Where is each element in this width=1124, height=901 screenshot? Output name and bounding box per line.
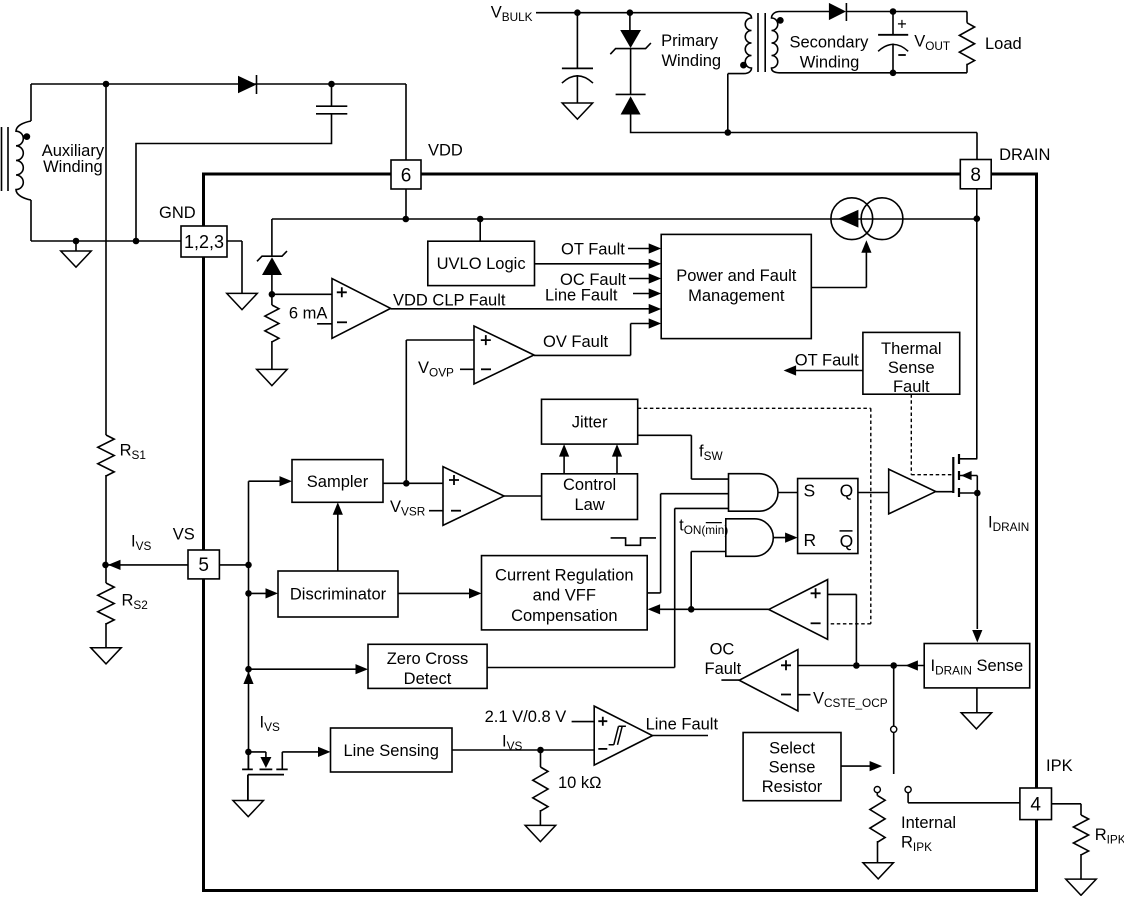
svg-text:Sense: Sense: [769, 759, 816, 777]
svg-text:2.1 V/0.8 V: 2.1 V/0.8 V: [485, 708, 567, 726]
svg-text:Secondary: Secondary: [789, 34, 869, 52]
svg-text:6: 6: [401, 165, 412, 186]
svg-text:+: +: [897, 15, 907, 33]
svg-text:S: S: [804, 481, 816, 501]
svg-text:Line Fault: Line Fault: [545, 287, 618, 305]
svg-text:OT Fault: OT Fault: [795, 352, 859, 370]
svg-text:Jitter: Jitter: [572, 413, 608, 431]
svg-text:Winding: Winding: [661, 52, 721, 70]
svg-text:Control: Control: [563, 476, 616, 494]
svg-text:and VFF: and VFF: [533, 587, 596, 605]
svg-text:Current Regulation: Current Regulation: [495, 567, 634, 585]
svg-text:Q: Q: [840, 531, 854, 551]
svg-text:Resistor: Resistor: [762, 778, 823, 796]
svg-text:OT Fault: OT Fault: [561, 240, 625, 258]
svg-text:R: R: [804, 530, 817, 550]
svg-text:Select: Select: [769, 739, 815, 757]
svg-text:OV Fault: OV Fault: [543, 333, 609, 351]
svg-text:Sampler: Sampler: [307, 473, 369, 491]
svg-text:Fault: Fault: [893, 378, 930, 396]
svg-text:Internal: Internal: [901, 814, 956, 832]
svg-text:GND: GND: [159, 204, 196, 222]
svg-text:Sense: Sense: [888, 359, 935, 377]
svg-text:VS: VS: [173, 526, 195, 544]
svg-text:Zero Cross: Zero Cross: [387, 650, 469, 668]
svg-text:OC: OC: [710, 641, 735, 659]
svg-text:Law: Law: [574, 496, 604, 514]
svg-text:Winding: Winding: [800, 54, 860, 72]
svg-text:IPK: IPK: [1046, 757, 1073, 775]
svg-text:VDD: VDD: [428, 142, 463, 160]
svg-text:Detect: Detect: [404, 670, 452, 688]
svg-text:Line Fault: Line Fault: [646, 716, 719, 734]
svg-text:10 kΩ: 10 kΩ: [558, 774, 602, 792]
svg-text:Compensation: Compensation: [511, 607, 617, 625]
svg-text:Load: Load: [985, 35, 1022, 53]
svg-text:6 mA: 6 mA: [289, 304, 328, 322]
svg-text:8: 8: [970, 165, 981, 186]
svg-text:1,2,3: 1,2,3: [184, 232, 224, 252]
svg-text:Discriminator: Discriminator: [290, 586, 387, 604]
svg-text:5: 5: [198, 555, 209, 576]
svg-text:Primary: Primary: [661, 32, 719, 50]
svg-text:Winding: Winding: [43, 158, 103, 176]
svg-text:DRAIN: DRAIN: [999, 146, 1050, 164]
svg-text:Power and Fault: Power and Fault: [676, 267, 797, 285]
svg-text:UVLO Logic: UVLO Logic: [437, 255, 526, 273]
svg-text:4: 4: [1030, 795, 1041, 816]
svg-text:Management: Management: [688, 287, 785, 305]
svg-text:Q: Q: [840, 481, 854, 501]
svg-text:Fault: Fault: [705, 660, 742, 678]
svg-text:Line Sensing: Line Sensing: [343, 742, 438, 760]
svg-text:Thermal: Thermal: [881, 340, 942, 358]
svg-text:VDD CLP Fault: VDD CLP Fault: [393, 292, 506, 310]
